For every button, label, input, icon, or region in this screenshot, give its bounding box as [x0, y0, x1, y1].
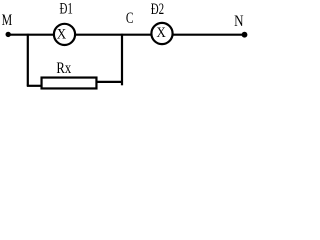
svg-text:M: M	[2, 12, 13, 29]
wire bottom left	[27, 85, 42, 87]
wire right vertical branch (to node C)	[121, 34, 123, 86]
svg-text:Rx: Rx	[56, 60, 71, 77]
svg-text:C: C	[126, 10, 134, 27]
wire bottom right	[97, 81, 124, 83]
resistor Rx	[42, 78, 97, 89]
svg-text:Đ1: Đ1	[60, 0, 73, 17]
lamp D1	[54, 24, 75, 45]
wire M to N (top rail)	[8, 34, 245, 36]
svg-text:N: N	[234, 13, 244, 30]
wire left vertical branch	[27, 34, 29, 86]
node M	[6, 32, 11, 37]
svg-text:X: X	[57, 26, 67, 42]
lamp D2	[151, 23, 172, 44]
svg-text:X: X	[156, 25, 166, 41]
svg-text:Đ2: Đ2	[151, 1, 164, 18]
node N	[242, 32, 248, 38]
